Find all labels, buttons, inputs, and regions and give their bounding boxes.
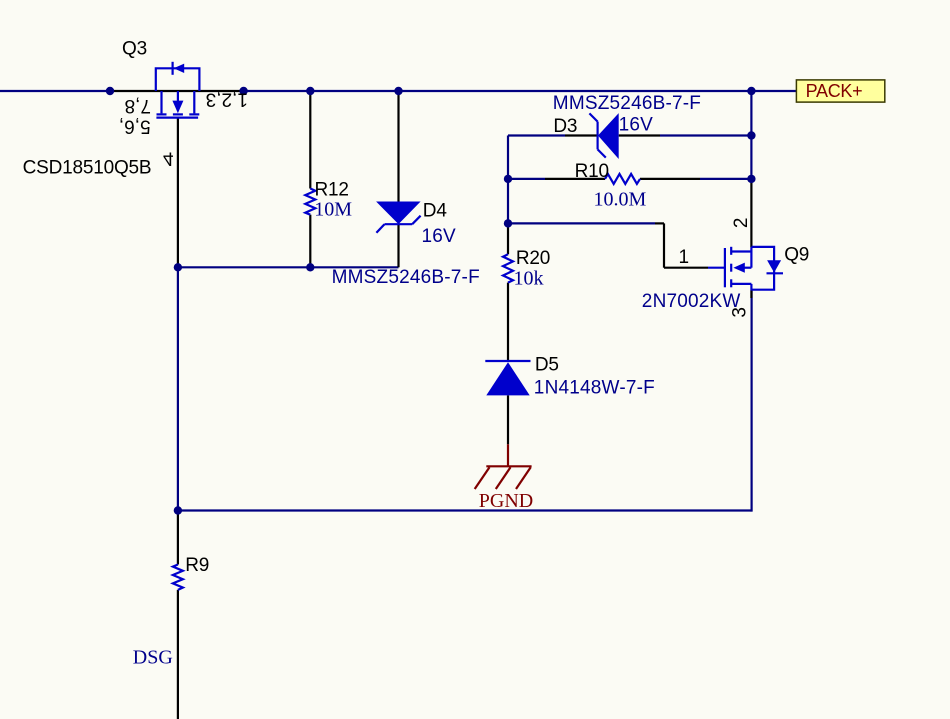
svg-text:2N7002KW: 2N7002KW: [642, 291, 741, 312]
svg-text:DSG: DSG: [133, 646, 173, 668]
svg-text:CSD18510Q5B: CSD18510Q5B: [23, 158, 152, 179]
svg-text:16V: 16V: [422, 226, 457, 247]
svg-text:Q3: Q3: [122, 39, 147, 60]
svg-text:D4: D4: [423, 201, 448, 222]
svg-text:D5: D5: [535, 355, 559, 376]
svg-text:10k: 10k: [514, 267, 544, 289]
svg-text:1,2,3: 1,2,3: [206, 88, 248, 109]
svg-text:2: 2: [731, 218, 752, 229]
svg-text:7,8: 7,8: [125, 95, 151, 116]
svg-text:PACK+: PACK+: [806, 81, 863, 101]
svg-text:R9: R9: [185, 555, 209, 576]
svg-text:10M: 10M: [314, 199, 352, 221]
svg-text:R12: R12: [315, 180, 349, 201]
svg-text:3: 3: [730, 307, 751, 318]
svg-text:R10: R10: [575, 161, 609, 182]
svg-text:MMSZ5246B-7-F: MMSZ5246B-7-F: [332, 267, 480, 288]
svg-text:1N4148W-7-F: 1N4148W-7-F: [534, 377, 655, 398]
svg-text:MMSZ5246B-7-F: MMSZ5246B-7-F: [553, 93, 701, 114]
svg-text:Q9: Q9: [784, 245, 809, 266]
svg-text:PGND: PGND: [479, 490, 533, 512]
svg-text:R20: R20: [516, 248, 550, 269]
svg-text:5,6,: 5,6,: [119, 115, 151, 136]
svg-text:10.0M: 10.0M: [594, 189, 647, 211]
svg-text:16V: 16V: [619, 115, 654, 136]
svg-text:4: 4: [163, 147, 174, 168]
svg-text:1: 1: [679, 247, 690, 268]
svg-text:D3: D3: [553, 116, 577, 137]
